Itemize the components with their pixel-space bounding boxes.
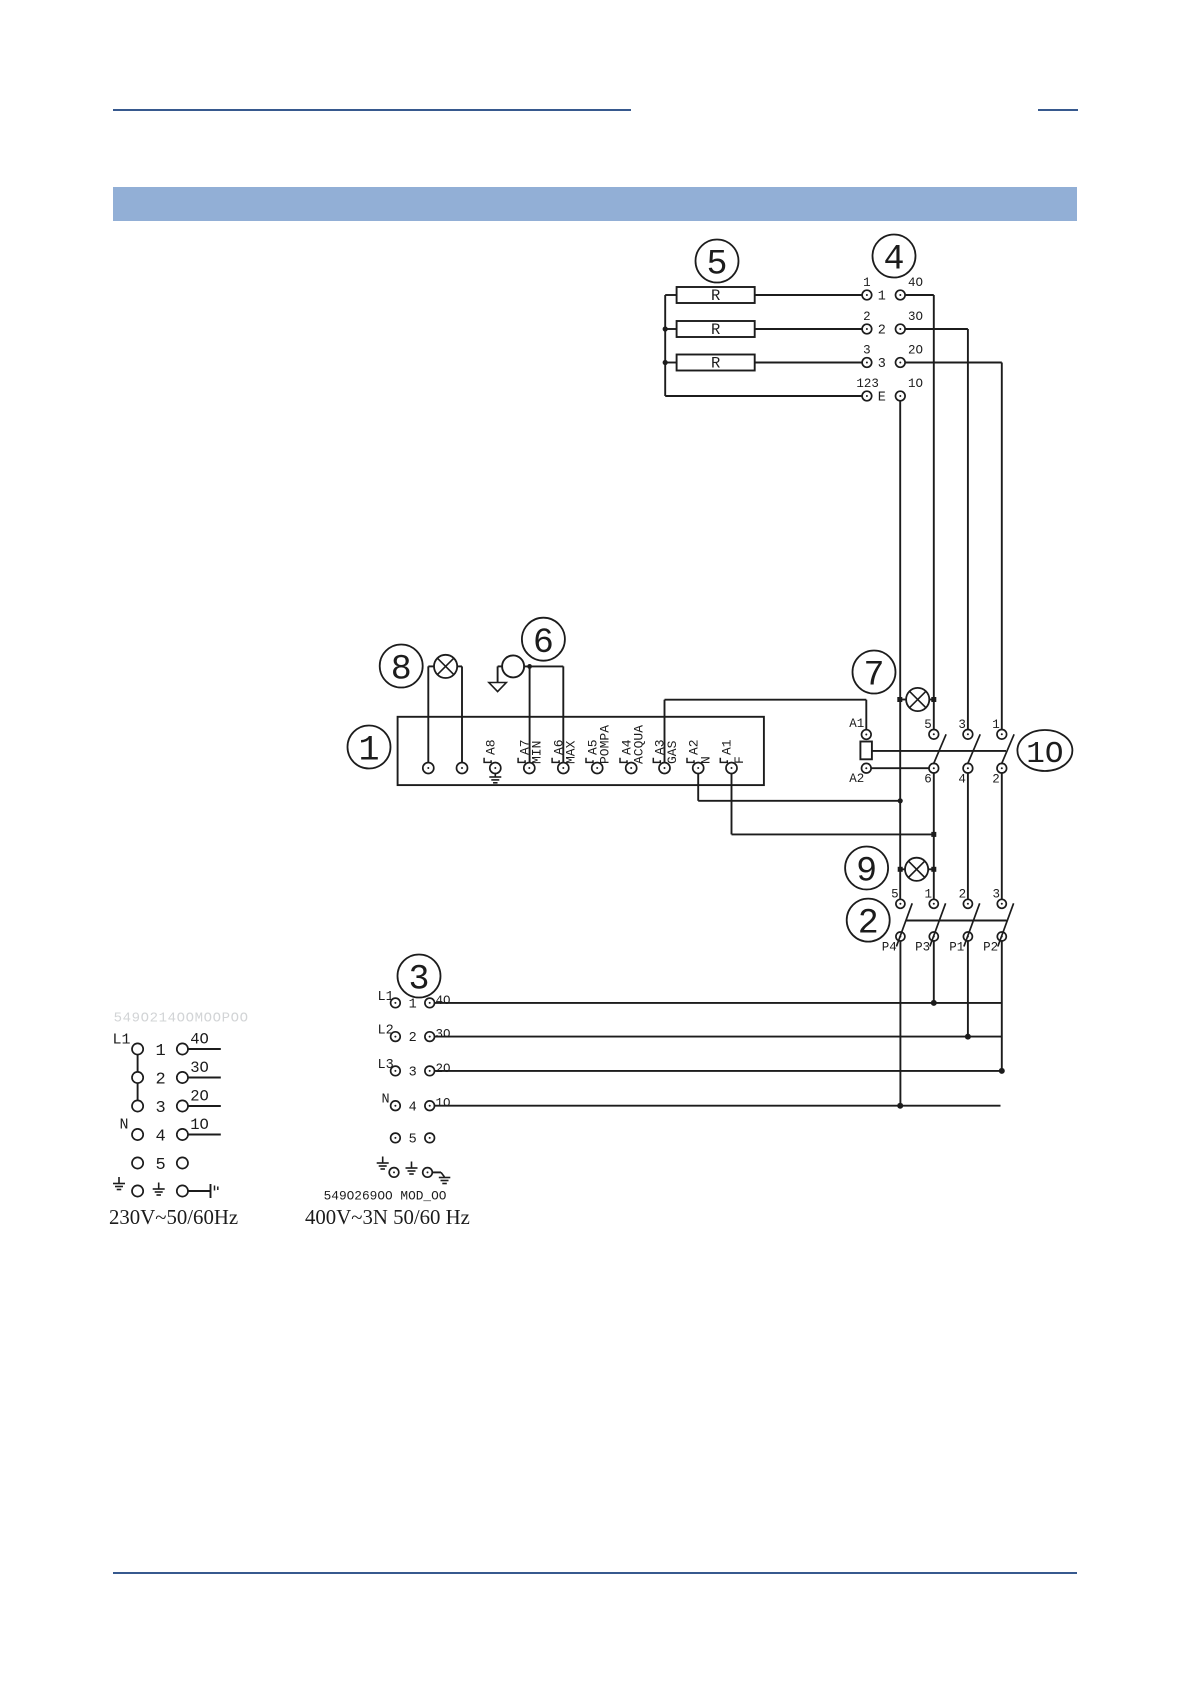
svg-text:4: 4 xyxy=(409,1100,417,1115)
switch 2 bottom terminal P2 xyxy=(997,932,1006,941)
switch 2 bottom terminal P1 xyxy=(963,932,972,941)
svg-text:1: 1 xyxy=(409,998,417,1013)
400V block left terminal 2 xyxy=(391,1032,401,1042)
svg-text:4O: 4O xyxy=(908,276,923,290)
wire: F net to vertical xyxy=(732,833,934,835)
spark gap electrode arrow xyxy=(489,683,506,692)
400V block right terminal 1O xyxy=(425,1101,435,1111)
wire: N net to vertical 10 xyxy=(698,800,900,802)
svg-text:6: 6 xyxy=(924,773,932,787)
wire: P1 down to net 30 row xyxy=(967,941,969,1037)
terminal tab mark A4 xyxy=(620,758,627,763)
junction N net with net 10 xyxy=(898,798,903,803)
wire: resistor R2 to selector contact 2 xyxy=(755,328,863,330)
balloon label 4 (selector switch) xyxy=(873,235,916,280)
contact 10 bottom terminal 6 xyxy=(929,763,939,773)
svg-text:1O: 1O xyxy=(1026,737,1063,772)
switch 2 bottom terminal P3 xyxy=(929,932,938,941)
400V block left terminal 3 xyxy=(391,1066,401,1076)
wire: down to terminal A7 MIN xyxy=(529,666,531,762)
contact blade 5-6 xyxy=(933,734,946,764)
230V block left terminal row 3 xyxy=(132,1100,143,1111)
board terminal A7 xyxy=(524,763,535,774)
wire: terminal A1 F down xyxy=(731,774,733,835)
switch 2 top terminal 3 xyxy=(997,899,1006,908)
wire: selector 20 right xyxy=(905,362,1002,364)
400V block right terminal 4O xyxy=(425,998,435,1008)
contact 10 top terminal 1 xyxy=(997,730,1007,740)
earth symbol left (230V block) xyxy=(113,1177,125,1190)
ignition electrode body xyxy=(502,655,524,677)
terminal tab mark A7 xyxy=(518,758,525,763)
400V block left terminal 4 xyxy=(391,1101,401,1111)
svg-text:A1: A1 xyxy=(720,739,735,755)
wire: contact 2 down to switch 2 xyxy=(1001,773,1003,899)
indicator lamp HL8 xyxy=(434,655,457,678)
230V block left terminal row 2 xyxy=(132,1072,143,1083)
junction row30 / P1 xyxy=(965,1034,971,1040)
svg-text:2: 2 xyxy=(155,1071,165,1090)
wire: 230V block 1O stub xyxy=(188,1134,221,1136)
terminal tab mark A2 xyxy=(687,758,694,763)
wire: net 40 vertical drop xyxy=(933,295,935,729)
balloon label 10 (contactor contacts) xyxy=(1017,730,1072,772)
wire: contact 6 down to switch 2 xyxy=(933,773,935,899)
coil terminal A1 xyxy=(862,730,872,740)
selector right terminal 2O xyxy=(896,358,906,368)
coil terminal A2 xyxy=(862,763,872,773)
wire: lamp left lead xyxy=(428,665,434,667)
svg-text:2O: 2O xyxy=(190,1088,209,1106)
svg-text:1O: 1O xyxy=(190,1116,209,1134)
wire: contact 4 down to switch 2 xyxy=(967,773,969,899)
svg-text:P4: P4 xyxy=(882,940,897,954)
board terminal A6 xyxy=(558,763,569,774)
switch blade 1-P3 xyxy=(930,903,946,946)
svg-text:R: R xyxy=(711,355,720,373)
svg-text:1O: 1O xyxy=(436,1097,451,1111)
svg-text:P1: P1 xyxy=(949,940,964,954)
selector right terminal 4O xyxy=(896,290,906,300)
svg-text:P3: P3 xyxy=(915,940,930,954)
svg-text:A1: A1 xyxy=(849,717,864,731)
wire: 230V block 4O stub xyxy=(188,1048,221,1050)
svg-text:F: F xyxy=(732,756,747,764)
svg-text:GAS: GAS xyxy=(665,740,680,764)
svg-text:2: 2 xyxy=(992,773,1000,787)
svg-text:1: 1 xyxy=(925,887,933,901)
400V block left terminal 5 xyxy=(391,1133,401,1143)
svg-text:1O: 1O xyxy=(908,377,923,391)
title band xyxy=(113,187,1077,221)
230V block right terminal row 3 xyxy=(177,1100,188,1111)
balloon label 6 (ignition electrode) xyxy=(522,618,565,663)
wire: lamp to board terminal 1 xyxy=(427,666,429,762)
indicator lamp HL9 xyxy=(905,858,928,881)
selector left terminal 2 xyxy=(862,324,872,334)
400V block right terminal 3O xyxy=(425,1032,435,1042)
svg-text:A8: A8 xyxy=(484,739,499,755)
switch blade 5-P4 xyxy=(896,903,912,946)
junction on resistor bus (row 3) xyxy=(663,360,668,365)
230V block right terminal row 4 xyxy=(177,1129,188,1140)
wire: lamp to board terminal 2 xyxy=(461,666,463,762)
terminal tab mark A5 xyxy=(586,758,593,763)
balloon label 8 (indicator lamp) xyxy=(380,645,423,690)
wire: lamp right lead xyxy=(457,665,462,667)
svg-text:POMPA: POMPA xyxy=(598,725,613,764)
tap square on net 10 at lamp7 xyxy=(897,697,902,702)
svg-text:2: 2 xyxy=(409,1031,417,1046)
bridge wire 1-2 (230V block) xyxy=(137,1055,139,1072)
230V block right terminal row 1 xyxy=(177,1043,188,1054)
svg-text:123: 123 xyxy=(856,377,879,391)
switch 2 top terminal 5 xyxy=(896,899,905,908)
230V block left terminal row 5 xyxy=(132,1157,143,1168)
svg-text:3: 3 xyxy=(409,1066,417,1081)
svg-text:9: 9 xyxy=(856,852,877,892)
wire: net 30 vertical drop xyxy=(967,329,969,729)
svg-text:3O: 3O xyxy=(436,1028,451,1042)
svg-text:5: 5 xyxy=(706,245,727,285)
mechanical linkage line of contactor 10 xyxy=(872,750,1006,752)
svg-text:5: 5 xyxy=(155,1156,165,1175)
svg-text:549O214OOMOOPOO: 549O214OOMOOPOO xyxy=(114,1011,249,1027)
board terminal A5 xyxy=(592,763,603,774)
wire: electrode to MAX net xyxy=(524,665,563,667)
400V block PE left terminal xyxy=(389,1168,399,1178)
svg-text:MIN: MIN xyxy=(530,741,545,764)
wire: GAS net to valve coil A1 xyxy=(665,699,867,701)
terminal tab mark A1 xyxy=(720,758,727,763)
230V block left terminal row 1 xyxy=(132,1043,143,1054)
switch 2 top terminal 2 xyxy=(963,899,972,908)
svg-text:3: 3 xyxy=(958,718,966,732)
wire: lamp7 left lead xyxy=(900,699,907,701)
balloon label 9 (lamp) xyxy=(845,847,888,892)
svg-text:3: 3 xyxy=(878,357,886,372)
svg-text:1: 1 xyxy=(358,731,379,771)
selector right terminal 3O xyxy=(896,324,906,334)
svg-text:3: 3 xyxy=(408,960,429,1000)
wire: supply row 20 xyxy=(435,1070,1002,1072)
wire: resistor R1 to selector contact 1 xyxy=(755,294,863,296)
wire: lamp9 right lead xyxy=(928,868,934,870)
earth symbol right (400V block) xyxy=(439,1172,451,1183)
terminal tab mark A8 xyxy=(484,758,491,763)
svg-text:230V~50/60Hz: 230V~50/60Hz xyxy=(109,1206,238,1229)
svg-text:4O: 4O xyxy=(190,1031,209,1049)
wire: net 20 vertical drop xyxy=(1001,363,1003,730)
svg-text:4: 4 xyxy=(883,240,904,280)
svg-text:L1: L1 xyxy=(112,1032,130,1049)
contact 10 bottom terminal 2 xyxy=(997,763,1007,773)
svg-text:R: R xyxy=(711,321,720,339)
wire: left bus of resistors xyxy=(664,295,666,396)
svg-text:3: 3 xyxy=(863,344,871,358)
selector right terminal 1O xyxy=(896,391,906,401)
terminal tab mark A6 xyxy=(552,758,559,763)
wire: 230V block 3O stub xyxy=(188,1077,221,1079)
svg-text:8: 8 xyxy=(391,650,412,690)
wire: resistor R3 to selector contact 3 xyxy=(755,362,863,364)
board terminal A2 xyxy=(693,763,704,774)
230V block left terminal row 4 xyxy=(132,1129,143,1140)
junction row10 / P4 xyxy=(897,1103,903,1109)
bridge wire 2-3 (230V block) xyxy=(137,1083,139,1100)
footer rule xyxy=(113,1572,1077,1574)
earth symbol left (400V block) xyxy=(377,1157,389,1170)
svg-text:2: 2 xyxy=(878,324,886,339)
wire: P3 down to net 40 row xyxy=(933,941,935,1003)
svg-text:5: 5 xyxy=(924,718,932,732)
header rule right segment xyxy=(1038,109,1078,111)
contact 10 bottom terminal 4 xyxy=(963,763,973,773)
resistor R3 xyxy=(677,355,755,371)
resistor R1 xyxy=(677,287,755,303)
board terminal A4 xyxy=(626,763,637,774)
balloon label 1 (control board) xyxy=(348,726,391,771)
svg-text:N: N xyxy=(382,1093,390,1108)
svg-text:2: 2 xyxy=(863,310,871,324)
board terminal unlabeled xyxy=(457,763,468,774)
junction at electrode output xyxy=(527,664,532,669)
balloon label 3 (400V terminal block) xyxy=(398,955,441,1000)
wire: bus to resistor R3 xyxy=(665,362,676,364)
svg-text:2: 2 xyxy=(959,887,967,901)
wire: P2 down to net 20 row xyxy=(1001,941,1003,1071)
selector left terminal E xyxy=(862,391,872,401)
wire: supply row 40 xyxy=(435,1002,1002,1004)
wire: lamp9 left lead xyxy=(900,868,905,870)
wire: PE stub (400V block) xyxy=(432,1171,441,1173)
tap square at lamp9 right xyxy=(931,867,936,872)
svg-text:3O: 3O xyxy=(190,1059,209,1077)
svg-text:A2: A2 xyxy=(849,772,864,786)
svg-text:1: 1 xyxy=(863,276,871,290)
svg-text:1: 1 xyxy=(878,290,886,305)
switch blade 3-P2 xyxy=(998,903,1014,946)
ground symbol under terminal A8 xyxy=(489,774,501,783)
junction F net with vertical 934 xyxy=(931,832,936,837)
board terminal A3 xyxy=(659,763,670,774)
svg-text:1: 1 xyxy=(992,718,1000,732)
board terminal unlabeled xyxy=(423,763,434,774)
wire: 230V block 2O stub xyxy=(188,1105,221,1107)
svg-text:3: 3 xyxy=(155,1099,165,1118)
contactor coil K1 xyxy=(860,742,872,760)
tap square on net 10 at lamp9 xyxy=(898,867,903,872)
svg-text:3O: 3O xyxy=(908,310,923,324)
wire: down to terminal A6 MAX xyxy=(562,666,564,762)
switch blade 2-P1 xyxy=(964,903,980,946)
svg-text:4O: 4O xyxy=(436,994,451,1008)
wire: selector 30 right xyxy=(905,328,968,330)
wire: bus to resistor R1 xyxy=(665,294,676,296)
svg-text:2: 2 xyxy=(858,904,879,944)
400V block PE right terminal xyxy=(423,1168,433,1178)
switch 2 top terminal 1 xyxy=(929,899,938,908)
earth symbol middle (400V block) xyxy=(406,1162,418,1175)
svg-text:4: 4 xyxy=(958,773,966,787)
svg-text:3: 3 xyxy=(993,887,1001,901)
230V block right terminal row 2 xyxy=(177,1072,188,1083)
svg-text:2O: 2O xyxy=(436,1062,451,1076)
wire: terminal A3 GAS up xyxy=(664,700,666,763)
junction row20 / P2 xyxy=(999,1068,1005,1074)
wire: selector 40 right xyxy=(905,294,934,296)
wire: bus to resistor R2 xyxy=(665,328,676,330)
switch 2 bottom terminal P4 xyxy=(896,932,905,941)
svg-text:400V~3N 50/60 Hz: 400V~3N 50/60 Hz xyxy=(305,1206,470,1229)
svg-text:4: 4 xyxy=(155,1128,165,1147)
svg-text:7: 7 xyxy=(863,656,884,696)
contact 10 top terminal 3 xyxy=(963,730,973,740)
balloon label 7 (lamp) xyxy=(853,651,896,696)
svg-text:P2: P2 xyxy=(983,940,998,954)
svg-text:A2: A2 xyxy=(686,739,701,755)
wire: lamp7 right lead xyxy=(929,699,934,701)
230V block PE right terminal xyxy=(177,1185,188,1196)
wire: supply row 10 xyxy=(435,1105,1001,1107)
control board outline U1 xyxy=(398,717,764,785)
400V block right terminal 5 xyxy=(425,1133,435,1143)
wire: PE stub (230V block) xyxy=(188,1190,210,1192)
selector left terminal 1 xyxy=(862,290,872,300)
400V block right terminal 2O xyxy=(425,1066,435,1076)
chassis bar symbol (230V block) xyxy=(211,1184,218,1198)
balloon label 5 (heating resistors group) xyxy=(696,240,739,285)
svg-text:R: R xyxy=(711,287,720,305)
wire: coil A2 to contact 6 xyxy=(871,767,929,769)
svg-text:2O: 2O xyxy=(908,344,923,358)
mechanical linkage line of switch 2 xyxy=(906,920,1007,922)
terminal tab mark A3 xyxy=(653,758,660,763)
400V block left terminal 1 xyxy=(391,998,401,1008)
resistor R2 xyxy=(677,321,755,337)
junction on resistor bus (row 2) xyxy=(663,326,668,331)
wire: bus bottom to selector contact E xyxy=(665,395,862,397)
svg-text:N: N xyxy=(119,1117,128,1134)
wire: supply row 30 xyxy=(435,1036,1002,1038)
wire: electrode left lead xyxy=(498,665,503,667)
230V block right terminal row 5 xyxy=(177,1157,188,1168)
svg-text:5: 5 xyxy=(891,887,899,901)
svg-text:5: 5 xyxy=(409,1133,417,1148)
wire: terminal A2 N down xyxy=(697,774,699,801)
selector left terminal 3 xyxy=(862,358,872,368)
svg-text:MAX: MAX xyxy=(564,740,579,764)
contact blade 3-4 xyxy=(968,734,981,764)
earth symbol middle (230V block) xyxy=(153,1183,165,1196)
junction row40 / P3 xyxy=(931,1000,937,1006)
contact blade 1-2 xyxy=(1001,734,1014,764)
svg-text:E: E xyxy=(878,391,886,406)
wire: net 10/E vertical drop xyxy=(899,401,901,899)
svg-text:549O269OO MOD_OO: 549O269OO MOD_OO xyxy=(324,1189,447,1204)
svg-text:6: 6 xyxy=(533,623,554,663)
indicator lamp HL7 xyxy=(906,688,929,711)
wire: down to coil terminal A1 xyxy=(865,700,867,730)
wire: P4 down to net 10 row xyxy=(899,941,901,1106)
balloon label 2 (main switch) xyxy=(847,899,890,944)
wire: electrode gap lead down xyxy=(497,666,499,682)
svg-text:ACQUA: ACQUA xyxy=(632,725,647,764)
svg-text:N: N xyxy=(699,756,714,764)
contact 10 top terminal 5 xyxy=(929,730,939,740)
board terminal A1 xyxy=(726,763,737,774)
tap square on net 40 at lamp7 xyxy=(931,697,936,702)
svg-text:1: 1 xyxy=(155,1042,165,1061)
header rule left segment xyxy=(113,109,631,111)
230V block PE left terminal xyxy=(132,1185,143,1196)
board terminal A8 xyxy=(490,763,501,774)
